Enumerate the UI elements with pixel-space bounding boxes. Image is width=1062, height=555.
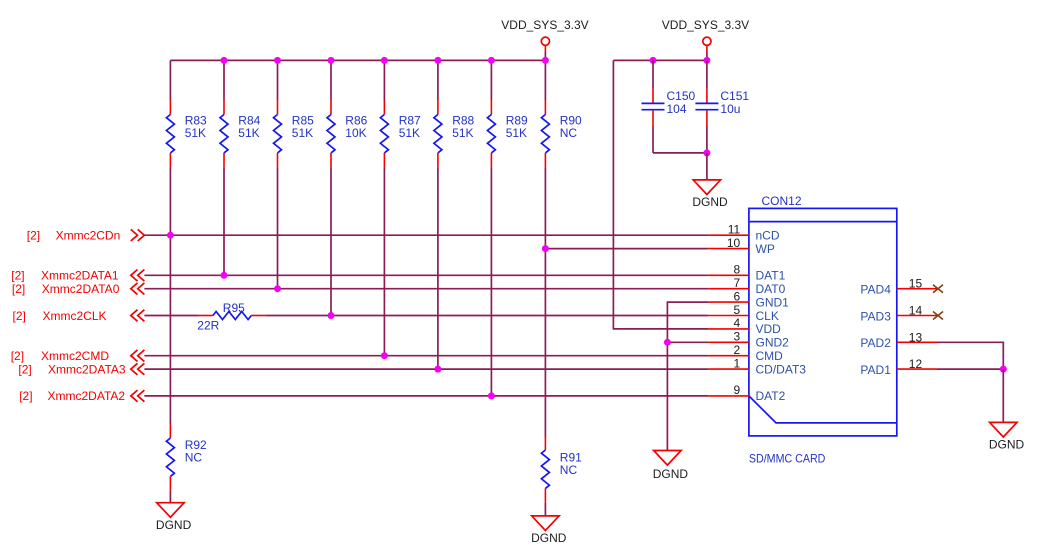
power symbol VDD_SYS_3.3V (right): [662, 18, 749, 60]
resistor R85: [274, 100, 315, 167]
junction dots on rail 1: [221, 57, 549, 64]
resistor R95: [197, 301, 265, 333]
wire PAD1 to junction: [937, 368, 1003, 370]
wire vertical from rail 2 down to VDD pin row: [613, 60, 708, 329]
resistor R83: [166, 100, 207, 167]
wire R90 column lower through WP row down to R91: [544, 167, 546, 436]
wire Xmmc2CMD row: [144, 355, 708, 357]
svg-text:10K: 10K: [345, 126, 366, 140]
svg-text:[2]: [2]: [12, 282, 25, 296]
svg-text:51K: 51K: [399, 126, 420, 140]
svg-text:8: 8: [734, 263, 741, 277]
wire R83 column from CDn row down to R92: [169, 235, 171, 423]
pin 1 CD/DAT3: [708, 356, 806, 376]
wire R88 column upper: [437, 60, 439, 100]
node Xmmc2CLK: [13, 309, 145, 323]
wire R86 column upper: [330, 60, 332, 100]
svg-text:[2]: [2]: [11, 269, 24, 283]
wire R89 column upper: [490, 60, 492, 100]
svg-text:13: 13: [909, 330, 923, 344]
svg-text:Xmmc2DATA1: Xmmc2DATA1: [41, 269, 119, 283]
svg-text:PAD1: PAD1: [860, 363, 891, 377]
svg-text:1: 1: [734, 356, 741, 370]
wire R91 to ground: [544, 503, 546, 516]
wire capacitor bottom rail: [653, 152, 707, 154]
pin 5 CLK: [708, 303, 779, 323]
svg-text:2: 2: [734, 343, 741, 357]
svg-text:nCD: nCD: [756, 229, 780, 243]
wire Xmmc2DATA1 row: [144, 274, 708, 276]
wire Xmmc2CLK row right of R95: [266, 315, 709, 317]
svg-text:51K: 51K: [452, 126, 473, 140]
pin 8 DAT1: [708, 263, 785, 283]
pin 7 DAT0: [708, 276, 785, 296]
svg-text:Xmmc2DATA0: Xmmc2DATA0: [42, 282, 120, 296]
wire stem to DGND: [706, 153, 708, 180]
svg-text:10u: 10u: [720, 102, 740, 116]
ground DGND (R92): [156, 503, 192, 532]
svg-text:R95: R95: [223, 301, 245, 315]
svg-text:51K: 51K: [292, 126, 313, 140]
svg-text:NC: NC: [560, 463, 578, 477]
ground DGND (R91): [531, 516, 567, 545]
wire Xmmc2CLK row left of R95: [144, 315, 198, 317]
ground DGND (GND1/GND2): [653, 451, 689, 482]
pin 13 PAD2: [860, 330, 937, 350]
node Xmmc2DATA2: [19, 389, 144, 403]
svg-text:[2]: [2]: [18, 362, 31, 376]
node Xmmc2CMD: [11, 349, 145, 363]
wire R86 column lower: [330, 167, 332, 315]
wire R84 column upper: [223, 60, 225, 100]
svg-text:SD/MMC CARD: SD/MMC CARD: [749, 451, 826, 465]
pin 3 GND2: [708, 330, 789, 350]
wire GND1 pin down to GND2 row and DGND: [667, 302, 708, 450]
svg-text:Xmmc2DATA3: Xmmc2DATA3: [48, 362, 126, 376]
pin 4 VDD: [708, 316, 781, 336]
wire R92 to ground: [169, 491, 171, 503]
power symbol VDD_SYS_3.3V (left): [501, 18, 588, 60]
wire R85 column upper: [277, 60, 279, 100]
svg-text:GND1: GND1: [756, 295, 790, 309]
svg-text:DGND: DGND: [653, 467, 689, 481]
svg-text:DGND: DGND: [156, 518, 192, 532]
junction dots on signal rows: [167, 232, 671, 400]
wire R89 column lower: [490, 167, 492, 396]
svg-text:51K: 51K: [238, 126, 259, 140]
svg-text:CMD: CMD: [756, 349, 784, 363]
node Xmmc2DATA3: [18, 362, 144, 376]
wire top rail 2: [613, 59, 707, 61]
svg-text:10: 10: [727, 236, 741, 250]
svg-text:Xmmc2CLK: Xmmc2CLK: [43, 309, 107, 323]
svg-text:51K: 51K: [506, 126, 527, 140]
resistor R92: [166, 424, 207, 491]
svg-text:[2]: [2]: [13, 309, 26, 323]
wire R87 column lower: [383, 167, 385, 355]
svg-text:PAD3: PAD3: [860, 309, 891, 323]
svg-text:51K: 51K: [185, 126, 206, 140]
svg-text:NC: NC: [185, 450, 203, 464]
svg-text:4: 4: [734, 316, 741, 330]
resistor R89: [487, 100, 528, 167]
svg-text:12: 12: [909, 357, 923, 371]
ground DGND (right): [989, 422, 1025, 451]
svg-text:15: 15: [909, 277, 923, 291]
resistor R86: [327, 100, 368, 167]
svg-text:VDD_SYS_3.3V: VDD_SYS_3.3V: [662, 18, 749, 32]
svg-text:DGND: DGND: [531, 531, 567, 545]
pin 15 PAD4: [860, 277, 943, 297]
svg-text:14: 14: [909, 304, 923, 318]
capacitor C151: [695, 60, 749, 152]
wire R87 column upper: [383, 60, 385, 100]
wire top rail 1: [170, 59, 545, 61]
svg-text:CON12: CON12: [762, 194, 802, 208]
svg-text:Xmmc2DATA2: Xmmc2DATA2: [48, 389, 126, 403]
svg-text:DAT2: DAT2: [756, 389, 786, 403]
node Xmmc2CDn: [27, 229, 145, 243]
svg-text:22R: 22R: [197, 318, 219, 332]
resistor R88: [434, 100, 475, 167]
svg-text:[2]: [2]: [27, 229, 40, 243]
svg-text:GND2: GND2: [756, 336, 790, 350]
svg-text:3: 3: [734, 330, 741, 344]
pin 10 WP: [708, 236, 775, 256]
svg-text:7: 7: [734, 276, 741, 290]
svg-text:[2]: [2]: [19, 389, 32, 403]
svg-text:PAD2: PAD2: [860, 336, 891, 350]
ground DGND (caps): [692, 180, 728, 209]
svg-text:[2]: [2]: [11, 349, 24, 363]
node Xmmc2DATA0: [12, 282, 145, 296]
wire R88 column lower: [437, 167, 439, 369]
wire Xmmc2DATA3 row: [144, 368, 708, 370]
pin 11 nCD: [708, 223, 780, 243]
wire R90 column upper: [544, 60, 546, 100]
capacitor C150: [642, 60, 696, 152]
wire Xmmc2CDn row: [144, 234, 708, 236]
svg-text:DGND: DGND: [692, 195, 728, 209]
wire WP row from R90 column: [545, 248, 708, 250]
wire GND2 row: [667, 341, 708, 343]
pin 12 PAD1: [860, 357, 937, 377]
wire R84 column lower: [223, 167, 225, 275]
resistor R87: [380, 100, 421, 167]
junction dot cap bottom: [703, 149, 710, 156]
svg-text:Xmmc2CMD: Xmmc2CMD: [41, 349, 109, 363]
wire R85 column lower: [277, 167, 279, 288]
pin 6 GND1: [708, 289, 789, 309]
svg-text:NC: NC: [560, 126, 578, 140]
junction dots on rail 2: [650, 57, 711, 64]
pin 14 PAD3: [860, 304, 943, 324]
wire Xmmc2DATA2 row: [144, 395, 708, 397]
node Xmmc2DATA1: [11, 269, 144, 283]
svg-text:CD/DAT3: CD/DAT3: [756, 362, 807, 376]
svg-text:DAT1: DAT1: [756, 269, 786, 283]
svg-text:VDD_SYS_3.3V: VDD_SYS_3.3V: [501, 18, 588, 32]
wire down to DGND: [1002, 369, 1004, 422]
junction dot PAD1: [1000, 366, 1007, 373]
svg-text:9: 9: [734, 383, 741, 397]
pin 2 CMD: [708, 343, 783, 363]
svg-text:VDD: VDD: [756, 322, 782, 336]
pin 9 DAT2: [708, 383, 785, 403]
svg-text:DGND: DGND: [989, 438, 1025, 452]
svg-text:PAD4: PAD4: [860, 283, 891, 297]
resistor R91: [541, 436, 582, 503]
svg-text:Xmmc2CDn: Xmmc2CDn: [56, 229, 121, 243]
svg-text:6: 6: [734, 289, 741, 303]
resistor R90: [541, 100, 582, 167]
resistor R84: [220, 100, 261, 167]
wire R83 column lower to CDn row: [169, 167, 171, 235]
wire Xmmc2DATA0 row: [144, 288, 708, 290]
svg-text:DAT0: DAT0: [756, 282, 786, 296]
connector CON12 body: [749, 194, 897, 465]
svg-text:11: 11: [728, 223, 741, 237]
svg-text:WP: WP: [756, 242, 775, 256]
wire R83 column upper: [169, 60, 171, 100]
svg-text:CLK: CLK: [756, 309, 779, 323]
svg-text:104: 104: [667, 102, 687, 116]
svg-text:5: 5: [734, 303, 741, 317]
wire PAD2 to right vertical: [937, 342, 1003, 369]
